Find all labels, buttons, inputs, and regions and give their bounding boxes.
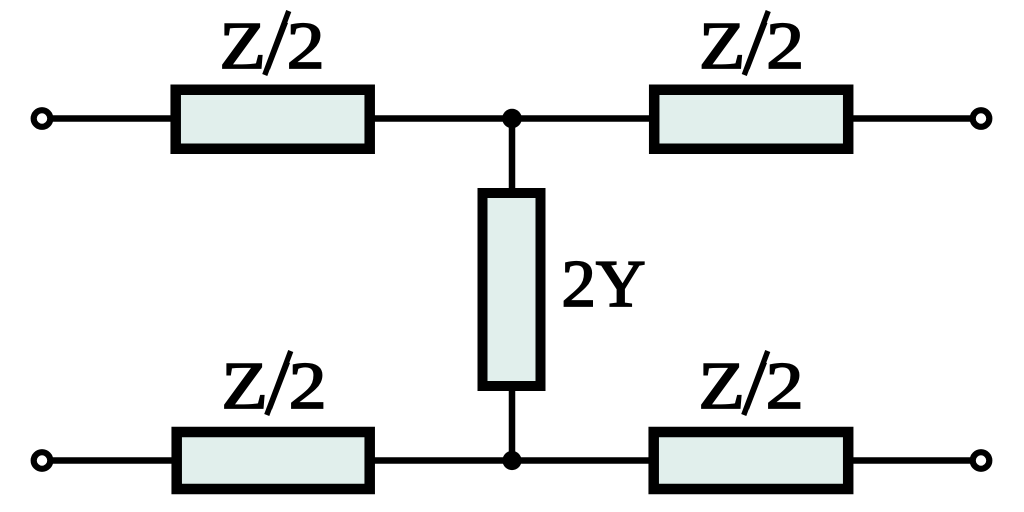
svg-text:Z/2: Z/2 xyxy=(699,9,804,83)
impedance box Z/2 top-right xyxy=(654,90,848,149)
wire: top-right impedance to output terminal 1 xyxy=(848,115,981,122)
node A junction dot xyxy=(502,109,522,129)
wire: bottom-left impedance to node B xyxy=(370,457,512,464)
input terminal 2 (open circle) xyxy=(34,452,51,469)
node B junction dot xyxy=(502,451,521,470)
impedance box Z/2 bottom-left xyxy=(177,432,370,489)
wire: node A to top-right impedance xyxy=(512,115,655,122)
svg-text:2Y: 2Y xyxy=(562,247,646,321)
admittance box 2Y (shunt) xyxy=(483,193,541,386)
wire: input terminal 1 to top-left impedance xyxy=(42,115,190,122)
wire: node A to shunt admittance 2Y xyxy=(509,119,516,201)
input terminal 1 (open circle) xyxy=(34,110,51,127)
impedance box Z/2 top-left xyxy=(176,90,370,149)
impedance box Z/2 bottom-right xyxy=(654,432,849,489)
wire: shunt admittance 2Y to node B xyxy=(509,386,516,461)
svg-text:Z/2: Z/2 xyxy=(222,349,327,423)
svg-text:Z/2: Z/2 xyxy=(699,349,804,423)
output terminal 2 (open circle) xyxy=(973,452,990,469)
wire: node B to bottom-right impedance xyxy=(512,457,655,464)
svg-text:Z/2: Z/2 xyxy=(220,9,325,83)
wire: bottom-right impedance to output terminal 2 xyxy=(848,457,981,464)
wire: input terminal 2 to bottom-left impedance xyxy=(42,457,190,464)
output terminal 1 (open circle) xyxy=(973,110,990,127)
wire: top-left impedance to node A xyxy=(370,115,512,122)
